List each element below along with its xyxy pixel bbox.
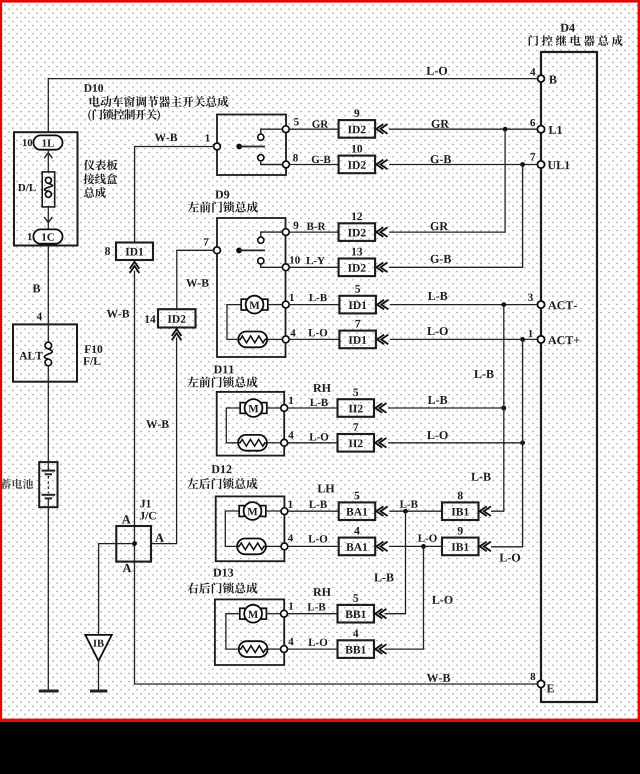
red frame: bottom edge [0, 719, 640, 723]
D4 terminal 4 B [538, 75, 545, 82]
wire L-B D9 pin1 to ID1-5 [289, 304, 339, 306]
pin 4 label at D4 B terminal [530, 68, 535, 75]
connector 1L stadium [33, 135, 62, 149]
black film edge bottom bar [0, 722, 640, 774]
D13 pin 1 terminal [281, 610, 288, 617]
wire: left vertical from top corner down to instrument panel junction box [47, 78, 49, 132]
fusible link symbol F10 F/L [47, 324, 49, 342]
D9 switch arm [236, 248, 242, 254]
connector ID1 pin 8 [116, 243, 153, 261]
label L-O below IB1-9 wire [500, 554, 521, 562]
wire battery to ground [47, 507, 49, 689]
label battery (Chinese) [1, 479, 33, 489]
ground triangle IB [85, 635, 112, 661]
wire net ACT- vertical (L-B) from D4 ACT- down to IB1-8 [491, 305, 504, 512]
ground bar (battery) [39, 690, 59, 693]
connector IB1 pin 8 [442, 502, 479, 520]
wire L-O D12 pin4 to BA1-4 [288, 545, 339, 547]
connector II2 pin 7 [338, 434, 375, 452]
wire W-B from D9 pin7 to ID2 connector 14 [177, 250, 214, 309]
D4 terminal 3 ACT- [537, 301, 544, 308]
D9 lock motor [227, 305, 241, 340]
D4 terminal 1 ACT+ [537, 336, 544, 343]
label F10 F/L [84, 345, 102, 353]
wire GR ID2-9 to D4 L1 with junction [389, 128, 537, 130]
wire L-Y D9 pin10 to ID2-13 [289, 266, 338, 268]
connector ID2 pin 13 [339, 259, 376, 277]
D12 pin 1 terminal [281, 508, 288, 515]
D4 terminal 6 L1 [537, 126, 544, 133]
wire net ACT+ vertical (L-O) from D4 ACT+ down to IB1-9 [491, 339, 523, 546]
wire G-B ID2-13 up to UL1 junction [389, 165, 523, 268]
door lock assembly D13 box [215, 599, 284, 665]
D13 pin 4 terminal [281, 646, 288, 653]
D13 position resistor [239, 641, 268, 657]
label W-B on bottom wire [427, 674, 450, 682]
D10 pin 1 terminal [214, 143, 221, 150]
switch D10 box [217, 115, 286, 176]
junction box J/B assembly outer box (instrument panel) [14, 132, 78, 245]
red frame: right edge [638, 0, 640, 722]
wire GR D10 pin5 to ID2-9 [289, 128, 338, 130]
D11 pin 1 terminal [281, 405, 288, 412]
label D4 door control relay assembly [561, 24, 575, 32]
D11 position resistor [238, 435, 267, 451]
D12 position resistor [237, 539, 266, 555]
wire L-B vertical from D12 row down to D13 BB1-5 [385, 511, 406, 614]
connector ID2 pin 14 [158, 309, 196, 327]
pin 4 label above ALT [37, 313, 42, 320]
wire motor to D9 pin 1 [268, 304, 283, 306]
label: instrument panel junction box assembly [84, 160, 118, 171]
label D10 power window master switch assembly [84, 84, 103, 92]
relay D4 box [541, 52, 597, 702]
D10 pin 5 terminal [282, 126, 289, 133]
D9 position resistor [238, 332, 267, 348]
fusible link box ALT [13, 324, 77, 381]
wire G-B ID2-10 to D4 UL1 with junction [389, 164, 537, 166]
connector ID1 pin 5 [339, 296, 376, 314]
door lock assembly D12 box [216, 496, 285, 561]
D10 switch arm [236, 144, 242, 150]
connector ID1 pin 7 [339, 331, 376, 349]
connector II2 pin 5 [338, 399, 375, 417]
label LH [318, 484, 335, 492]
battery [39, 462, 57, 507]
connector ID2 pin 12 [339, 223, 376, 241]
net label B [33, 284, 40, 292]
wire L-B BA1-5 to IB1-8 with junction [389, 510, 442, 512]
D13 lock motor [226, 614, 240, 649]
wire W-B from D10 pin1 to ID1 connector 8 [135, 147, 214, 243]
ground bar (IB) [90, 690, 107, 693]
junction node A inside J/C [132, 541, 137, 546]
label RH [313, 588, 331, 596]
D9 pin 7 terminal [214, 247, 221, 254]
wire L-B D11 pin1 to II2-5 [288, 407, 338, 409]
connector BB1 pin 5 [338, 605, 375, 623]
pin 1 label of 1C [28, 233, 32, 240]
label RH [313, 384, 331, 392]
D10 switch contacts [258, 134, 264, 140]
wire L-O D9 pin4 to ID1-7 [289, 338, 339, 340]
connector BA1 pin 4 [339, 538, 376, 556]
connector BA1 pin 5 [339, 502, 376, 520]
value label L-O on top wire [427, 67, 448, 75]
wire ALT to battery [47, 382, 49, 462]
connector IB1 pin 9 [442, 538, 479, 556]
wire L-O D13 pin4 to BB1-4 [287, 648, 337, 650]
wire L-B II2-5 to ACT- vertical [388, 407, 504, 409]
D9 pin 4 terminal [282, 336, 289, 343]
D9 pin 10 terminal [282, 264, 289, 271]
connector ID2 pin 9 [339, 120, 376, 138]
D10 pin 8 terminal [283, 161, 290, 168]
wire W-B ID1-8 down through J/C to bottom [135, 271, 538, 684]
wire: battery main feed vertical (x=48) top corner to D4 B terminal [48, 78, 537, 80]
pin 10 label of 1L [23, 139, 32, 146]
D9 switch contacts [258, 237, 264, 243]
wire J/C to IB ground triangle [99, 544, 135, 635]
label D9 left front door lock assembly [215, 190, 229, 198]
wire B-R D9 pin9 to ID2-12 [289, 231, 338, 233]
D11 pin 4 terminal [281, 439, 288, 446]
connector ID2 pin 10 [339, 156, 376, 174]
label D/L [18, 184, 36, 191]
junction connector J1 J/C [140, 500, 150, 508]
wire L-B ID1-5 to D4 ACT- with junction [390, 304, 538, 306]
label D13 right rear door lock assembly [213, 569, 233, 577]
D9 pin 9 terminal [282, 229, 289, 236]
wire G-B D10 pin8 to ID2-10 [289, 164, 338, 166]
wire L-B D12 pin1 to BA1-5 [288, 510, 339, 512]
wire L-O II2-7 to ACT+ vertical [388, 442, 523, 444]
D11 lock motor [226, 408, 240, 443]
label D11 front door lock assembly [214, 365, 234, 373]
D12 pin 4 terminal [281, 543, 288, 550]
D4 terminal 7 UL1 [537, 161, 544, 168]
red frame: left edge [0, 0, 2, 722]
red frame: top edge [0, 0, 640, 3]
wire L-B D13 pin1 to BB1-5 [287, 613, 337, 615]
wire 1L to D/L fuse with up arrowhead [47, 150, 49, 172]
wire L-O BA1-4 to IB1-9 with junction [389, 545, 442, 547]
D4 terminal 8 E [537, 680, 544, 687]
wire junction box to ALT box, net B [47, 246, 49, 325]
wire GR ID2-12 up to L1 junction [389, 129, 505, 232]
fuse D/L box [42, 172, 55, 207]
wire W-B ID2-14 down to J/C [151, 338, 177, 544]
door lock assembly D9 box [217, 218, 286, 357]
wire L-O ID1-7 to D4 ACT+ with junction [390, 338, 538, 340]
D12 lock motor [225, 511, 239, 546]
connector BB1 pin 4 [338, 640, 375, 658]
wire resistor to D9 pin 4 [267, 338, 282, 340]
wire D/L fuse to 1C with down arrowhead [47, 207, 49, 230]
wire L-O vertical from D12 row down to D13 BB1-4 [385, 546, 424, 649]
connector 1C stadium [33, 229, 62, 243]
D9 pin 1 terminal [282, 301, 289, 308]
label D12 left rear door lock assembly [212, 465, 232, 473]
door lock assembly D11 box [217, 392, 285, 456]
wire L-O D11 pin4 to II2-7 [288, 442, 338, 444]
